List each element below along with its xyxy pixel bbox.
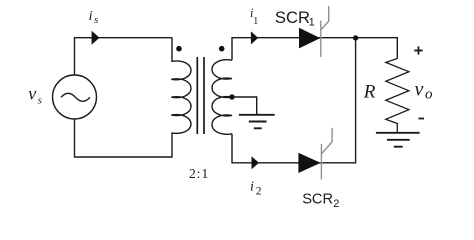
svg-text:i: i: [89, 9, 93, 24]
svg-text:2: 2: [333, 198, 339, 210]
svg-text:o: o: [425, 86, 433, 102]
svg-text:2: 2: [189, 166, 196, 181]
svg-text:SCR: SCR: [275, 8, 310, 27]
svg-text:SCR: SCR: [302, 191, 333, 207]
svg-text:v: v: [28, 83, 36, 103]
svg-text:1: 1: [202, 166, 209, 181]
svg-text:s: s: [94, 14, 98, 26]
svg-text::: :: [197, 166, 201, 181]
svg-text:v: v: [415, 79, 424, 101]
svg-text:i: i: [250, 180, 254, 195]
svg-text:R: R: [363, 82, 376, 103]
svg-text:1: 1: [253, 16, 258, 27]
svg-text:1: 1: [309, 16, 315, 28]
svg-text:2: 2: [256, 185, 262, 197]
svg-text:s: s: [38, 95, 42, 107]
